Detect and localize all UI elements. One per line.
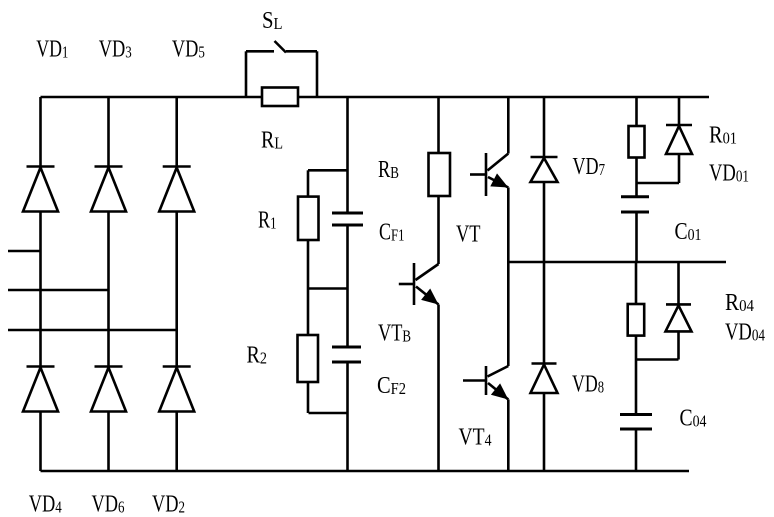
wire VTB emitter to bottom bus — [437, 305, 440, 472]
wire VD4 to bottom bus — [39, 412, 42, 472]
resistor R2 — [298, 335, 319, 382]
svg-text:VD6: VD6 — [92, 492, 125, 517]
diode VD1 — [23, 167, 58, 212]
svg-text:VT4: VT4 — [459, 425, 492, 451]
wire C01 to middle bus — [635, 212, 638, 262]
diode VD6 — [91, 367, 126, 412]
wire VT4 emitter to bottom bus — [507, 400, 510, 472]
wire junction down to CF2 — [346, 289, 349, 348]
svg-text:VD04: VD04 — [725, 319, 765, 345]
wire VT emitter to VT4 collector — [507, 188, 510, 367]
svg-text:VD01: VD01 — [709, 161, 749, 187]
resistor RL — [262, 88, 298, 107]
wire middle bus to R04 — [635, 262, 638, 304]
wire top positive bus — [41, 96, 710, 99]
svg-text:RB: RB — [378, 157, 399, 183]
transistor VT — [470, 153, 508, 196]
wire VD04 to connector — [677, 332, 680, 360]
wire top bus to VD3 — [107, 97, 110, 167]
wire top bus down to CF1 — [346, 97, 349, 213]
wire R2 bottom jog — [309, 412, 348, 415]
wire C04 to bottom bus — [635, 429, 638, 471]
diode VD5 — [159, 167, 194, 212]
wire switch right leg — [316, 51, 319, 97]
wire RB to VTB collector — [437, 196, 440, 264]
svg-text:C04: C04 — [680, 406, 707, 432]
transistor VTB — [399, 263, 439, 305]
wire R01 to C01 — [635, 158, 638, 197]
svg-text:R01: R01 — [709, 123, 737, 149]
wire top bus to R01 — [635, 97, 638, 126]
resistor RB — [429, 153, 451, 196]
wire CF2 to lower jog — [346, 362, 349, 413]
wire VD1 to VD4 — [39, 212, 42, 367]
wire R1 to junction — [307, 240, 310, 289]
diode VD7 — [531, 157, 558, 182]
wire AC phase input b — [8, 289, 109, 292]
wire jog down to R1 — [307, 170, 310, 196]
capacitor C01 — [621, 197, 649, 212]
svg-text:CF2: CF2 — [377, 373, 406, 399]
svg-text:R04: R04 — [725, 290, 754, 316]
capacitor CF2 — [332, 347, 361, 362]
wire bottom negative bus — [41, 470, 690, 473]
capacitor C04 — [620, 415, 652, 430]
svg-text:C01: C01 — [675, 219, 702, 245]
svg-text:RL: RL — [261, 127, 283, 153]
diode VD01 — [666, 125, 692, 154]
wire switch top left segment — [246, 50, 274, 53]
wire VD01 to connector — [678, 154, 681, 183]
diode VD8 — [531, 364, 558, 394]
svg-text:R2: R2 — [247, 343, 268, 369]
wire top bus to VT collector — [507, 97, 510, 154]
svg-text:SL: SL — [262, 8, 283, 34]
wire top bus to VD01 — [678, 97, 681, 125]
wire R01-VD01 connector — [637, 182, 680, 185]
wire R04 to C04 — [635, 336, 638, 415]
wire top bus to VD7 — [543, 97, 546, 157]
resistor R04 — [628, 304, 645, 336]
wire R04-VD04 connector — [636, 358, 679, 361]
wire VD2 to bottom bus — [175, 412, 178, 472]
wire junction to R2 — [307, 289, 310, 336]
svg-text:CF1: CF1 — [379, 219, 405, 245]
resistor R01 — [629, 126, 645, 158]
wire VD8 to bottom bus — [543, 393, 546, 471]
diode VD3 — [91, 167, 126, 212]
wire switch left leg — [245, 51, 248, 97]
svg-text:R1: R1 — [258, 207, 277, 233]
wire R1-R2 junction to chain — [308, 287, 348, 290]
svg-text:VD8: VD8 — [572, 372, 604, 398]
svg-text:VD7: VD7 — [573, 154, 606, 180]
diode VD4 — [23, 367, 58, 412]
wire VD3 to VD6 — [107, 212, 110, 367]
wire middle output bus — [508, 261, 726, 264]
svg-text:VTB: VTB — [378, 321, 411, 347]
wire AC phase input a — [8, 250, 41, 253]
diode VD2 — [159, 367, 194, 412]
wire VD6 to bottom bus — [107, 412, 110, 472]
svg-text:VD3: VD3 — [99, 37, 132, 63]
wire top bus to VD1 — [39, 97, 42, 167]
switch SL blade — [275, 41, 287, 53]
svg-text:VD1: VD1 — [36, 37, 68, 63]
transistor VT4 — [463, 366, 508, 400]
wire VD5 to VD2 — [175, 212, 178, 367]
svg-text:VD5: VD5 — [172, 37, 205, 63]
resistor R1 — [298, 197, 319, 240]
wire R1 top jog — [308, 169, 348, 172]
wire chain to bottom bus — [346, 413, 349, 471]
wire middle bus to VD04 — [677, 262, 680, 304]
wire CF1 to junction — [346, 225, 349, 289]
svg-text:VT: VT — [456, 222, 481, 248]
wire top bus to RB — [437, 97, 440, 153]
wire VD7 to VD8 — [543, 182, 546, 364]
wire R2 to jog — [307, 382, 310, 413]
svg-text:VD2: VD2 — [152, 492, 185, 517]
capacitor CF1 — [332, 213, 363, 225]
diode VD04 — [666, 304, 692, 331]
svg-text:VD4: VD4 — [29, 492, 62, 517]
wire AC phase input c — [8, 329, 177, 332]
wire switch top right segment — [286, 50, 317, 53]
wire top bus to VD5 — [175, 97, 178, 167]
